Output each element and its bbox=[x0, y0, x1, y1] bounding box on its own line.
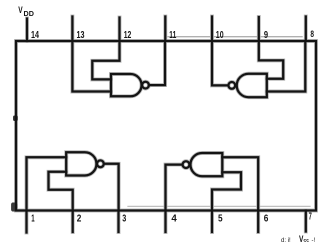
svg-text:V: V bbox=[18, 5, 22, 15]
ghost scan line above top edge bbox=[168, 36, 302, 38]
svg-text:SS: SS bbox=[303, 239, 309, 242]
svg-text:10: 10 bbox=[216, 30, 224, 41]
svg-text:4: 4 bbox=[171, 214, 177, 225]
svg-text:d: i!: d: i! bbox=[281, 238, 291, 242]
Vss label bbox=[281, 234, 315, 242]
svg-text:12: 12 bbox=[124, 30, 132, 41]
ghost scan line above bottom edge bbox=[128, 205, 310, 207]
svg-text:5: 5 bbox=[218, 214, 223, 225]
svg-text:DD: DD bbox=[24, 9, 34, 18]
svg-text:3: 3 bbox=[122, 214, 126, 225]
svg-text:6: 6 bbox=[264, 214, 269, 225]
svg-text:11: 11 bbox=[169, 30, 176, 41]
svg-text:1: 1 bbox=[31, 214, 35, 225]
svg-text:13: 13 bbox=[77, 30, 85, 41]
svg-text:9: 9 bbox=[264, 30, 269, 41]
svg-text:8: 8 bbox=[310, 29, 314, 39]
svg-text:7: 7 bbox=[309, 212, 312, 223]
Vdd label bbox=[18, 5, 34, 18]
svg-text:2: 2 bbox=[77, 214, 82, 225]
svg-text:14: 14 bbox=[31, 30, 39, 41]
svg-text:-!: -! bbox=[312, 238, 316, 242]
